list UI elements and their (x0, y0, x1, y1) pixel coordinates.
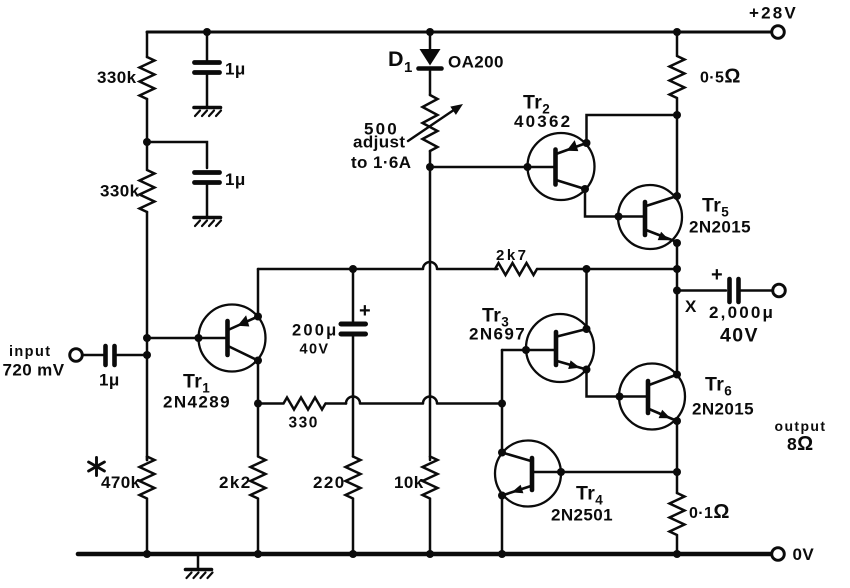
wire Tr2 collector to Tr5 base (585, 189, 644, 217)
svg-text:330k: 330k (100, 182, 140, 201)
node Tr3 base dot (522, 346, 530, 354)
svg-text:2N4289: 2N4289 (163, 393, 231, 412)
svg-text:X: X (685, 297, 697, 316)
svg-text:2N2015: 2N2015 (692, 400, 754, 419)
node Tr5 base dot (615, 213, 623, 221)
capacitor 1u input (106, 346, 148, 365)
svg-text:to 1·6A: to 1·6A (351, 153, 411, 172)
node junction rail-D1 (426, 28, 434, 36)
svg-text:40362: 40362 (514, 112, 572, 131)
svg-text:1μ: 1μ (225, 170, 246, 189)
svg-text:2k2: 2k2 (219, 473, 252, 492)
resistor 2k2 (251, 404, 266, 555)
node junction 200u top (349, 265, 357, 273)
node junction 330 left (254, 400, 262, 408)
wire Tr1 base (147, 337, 226, 340)
wire 330k-mid to 1u lower (147, 142, 207, 168)
svg-text:8Ω: 8Ω (787, 433, 814, 455)
node junction 2k7 right (673, 265, 681, 273)
svg-text:40V: 40V (720, 325, 759, 347)
svg-text:2N697: 2N697 (469, 325, 526, 344)
svg-text:2N2015: 2N2015 (689, 218, 751, 237)
terminal output (773, 284, 786, 297)
transistor Tr6 (619, 364, 685, 430)
node Tr1 emitter dot (254, 313, 262, 321)
svg-text:input: input (9, 344, 51, 360)
node junction rail-1u (203, 28, 211, 36)
svg-text:220: 220 (313, 473, 346, 492)
terminal input (70, 349, 83, 362)
node junction 0.5ohm top (673, 28, 681, 36)
node Tr3 collector dot (583, 325, 591, 333)
node Tr6 emitter dot (673, 417, 681, 425)
capacitor 200u (341, 269, 366, 457)
svg-text:adjust: adjust (353, 133, 405, 152)
svg-text:+: + (711, 264, 723, 286)
node Tr2 collector dot (581, 185, 589, 193)
svg-text:0·1Ω: 0·1Ω (689, 501, 730, 523)
wire X to output cap (677, 289, 726, 292)
wire bias column down (429, 167, 432, 460)
node Tr4 base dot (557, 468, 565, 476)
svg-text:+: + (359, 300, 371, 322)
wire left column middle (146, 212, 149, 460)
svg-text:0·5Ω: 0·5Ω (700, 66, 741, 88)
ground lower 1u (194, 218, 221, 227)
wire 0V bottom rail (78, 552, 771, 557)
wire Tr4 emitter down (501, 496, 504, 555)
node rail dot 2k2 (254, 550, 262, 558)
svg-text:330k: 330k (97, 68, 137, 87)
node Tr6 base dot (616, 393, 624, 401)
svg-text:2N2501: 2N2501 (551, 506, 613, 525)
node rail dot 220 (349, 550, 357, 558)
resistor 10k (423, 457, 438, 555)
node Tr2 base dot (524, 163, 532, 171)
wire Tr3 emitter to Tr6 base (587, 370, 647, 397)
svg-text:output: output (775, 418, 827, 434)
wire 470k top lead (146, 457, 149, 461)
node X (673, 287, 681, 295)
rheostat 500 adjust (408, 95, 463, 167)
wire Tr3 base (502, 349, 554, 352)
wire 330 line hops (346, 397, 502, 404)
svg-text:470k: 470k (101, 473, 141, 492)
node rail dot 470k (143, 550, 151, 558)
wire left column top (146, 32, 149, 57)
svg-text:2,000μ: 2,000μ (709, 303, 775, 322)
resistor 470k (140, 457, 155, 555)
wire Tr1 emitter up (257, 269, 260, 317)
node Tr2 emitter dot (583, 139, 591, 147)
transistor Tr1 (199, 305, 266, 372)
node Tr4 emitter dot (498, 492, 506, 500)
transistor Tr5 (618, 185, 682, 249)
transistor Tr4 (495, 441, 561, 507)
resistor 330 (258, 398, 346, 410)
svg-text:+28V: +28V (749, 4, 798, 23)
node Tr4 collector dot (498, 449, 506, 457)
node Tr1 base dot (195, 334, 203, 342)
label asterisk (89, 458, 105, 476)
ground upper 1u (194, 108, 221, 117)
node junction Tr4 base right (673, 468, 681, 476)
node junction 330k midpoint (143, 138, 151, 146)
diode D1 (419, 32, 442, 95)
svg-text:1μ: 1μ (225, 60, 246, 79)
wire feedback 2k7 line (258, 262, 498, 269)
svg-text:200μ: 200μ (292, 322, 338, 340)
capacitor C 1u upper (195, 32, 220, 106)
resistor 220 (346, 457, 361, 555)
capacitor 2000u output (730, 279, 773, 302)
node rail dot Tr4 (498, 550, 506, 558)
svg-text:0V: 0V (793, 545, 815, 564)
svg-text:10k: 10k (394, 473, 424, 492)
resistor 2k7 (495, 263, 677, 275)
wire Tr3 base column (501, 350, 504, 453)
wire Tr1 collector down (257, 361, 260, 404)
node Tr6 collector dot (673, 371, 681, 379)
resistor 0.5 ohm (670, 32, 685, 196)
wire +28V top rail (147, 31, 771, 34)
wire between 330k resistors (146, 99, 149, 142)
node rail dot 10k (426, 550, 434, 558)
wire Tr2 base (430, 166, 554, 169)
node junction base tap (143, 334, 151, 342)
transistor Tr3 (526, 314, 594, 382)
node rail dot 0.1ohm (673, 550, 681, 558)
node junction 330 right (498, 400, 506, 408)
node junction input cap (143, 351, 151, 359)
wire Tr2 emitter to 0.5ohm node (587, 115, 678, 143)
resistor 330k upper (140, 57, 155, 99)
resistor 0.1 ohm (670, 493, 685, 554)
node junction bias (426, 163, 434, 171)
capacitor C 1u lower (195, 173, 220, 217)
svg-text:330: 330 (289, 415, 319, 432)
terminal 0V (772, 548, 785, 561)
svg-text:720 mV: 720 mV (3, 361, 65, 380)
node Tr5 collector dot (673, 192, 681, 200)
resistor 330k lower (140, 142, 155, 212)
node Tr1 collector dot (254, 357, 262, 365)
wire Tr4 base (534, 471, 677, 474)
svg-text:40V: 40V (300, 342, 330, 358)
svg-text:1μ: 1μ (99, 371, 120, 390)
ground main rail (186, 556, 213, 578)
wire Tr3 collector up (585, 269, 588, 329)
node junction collector rail (673, 111, 681, 119)
svg-text:OA200: OA200 (448, 53, 504, 72)
wire input to cap (83, 354, 104, 357)
node junction Tr3 collector net (583, 265, 591, 273)
transistor Tr2 (528, 133, 595, 200)
node Tr3 emitter dot (583, 366, 591, 374)
svg-text:2k7: 2k7 (496, 247, 529, 264)
terminal +28V (772, 26, 785, 39)
wire right column low (676, 421, 679, 493)
node Tr5 emitter dot (673, 239, 681, 247)
wire right column mid (676, 243, 679, 375)
